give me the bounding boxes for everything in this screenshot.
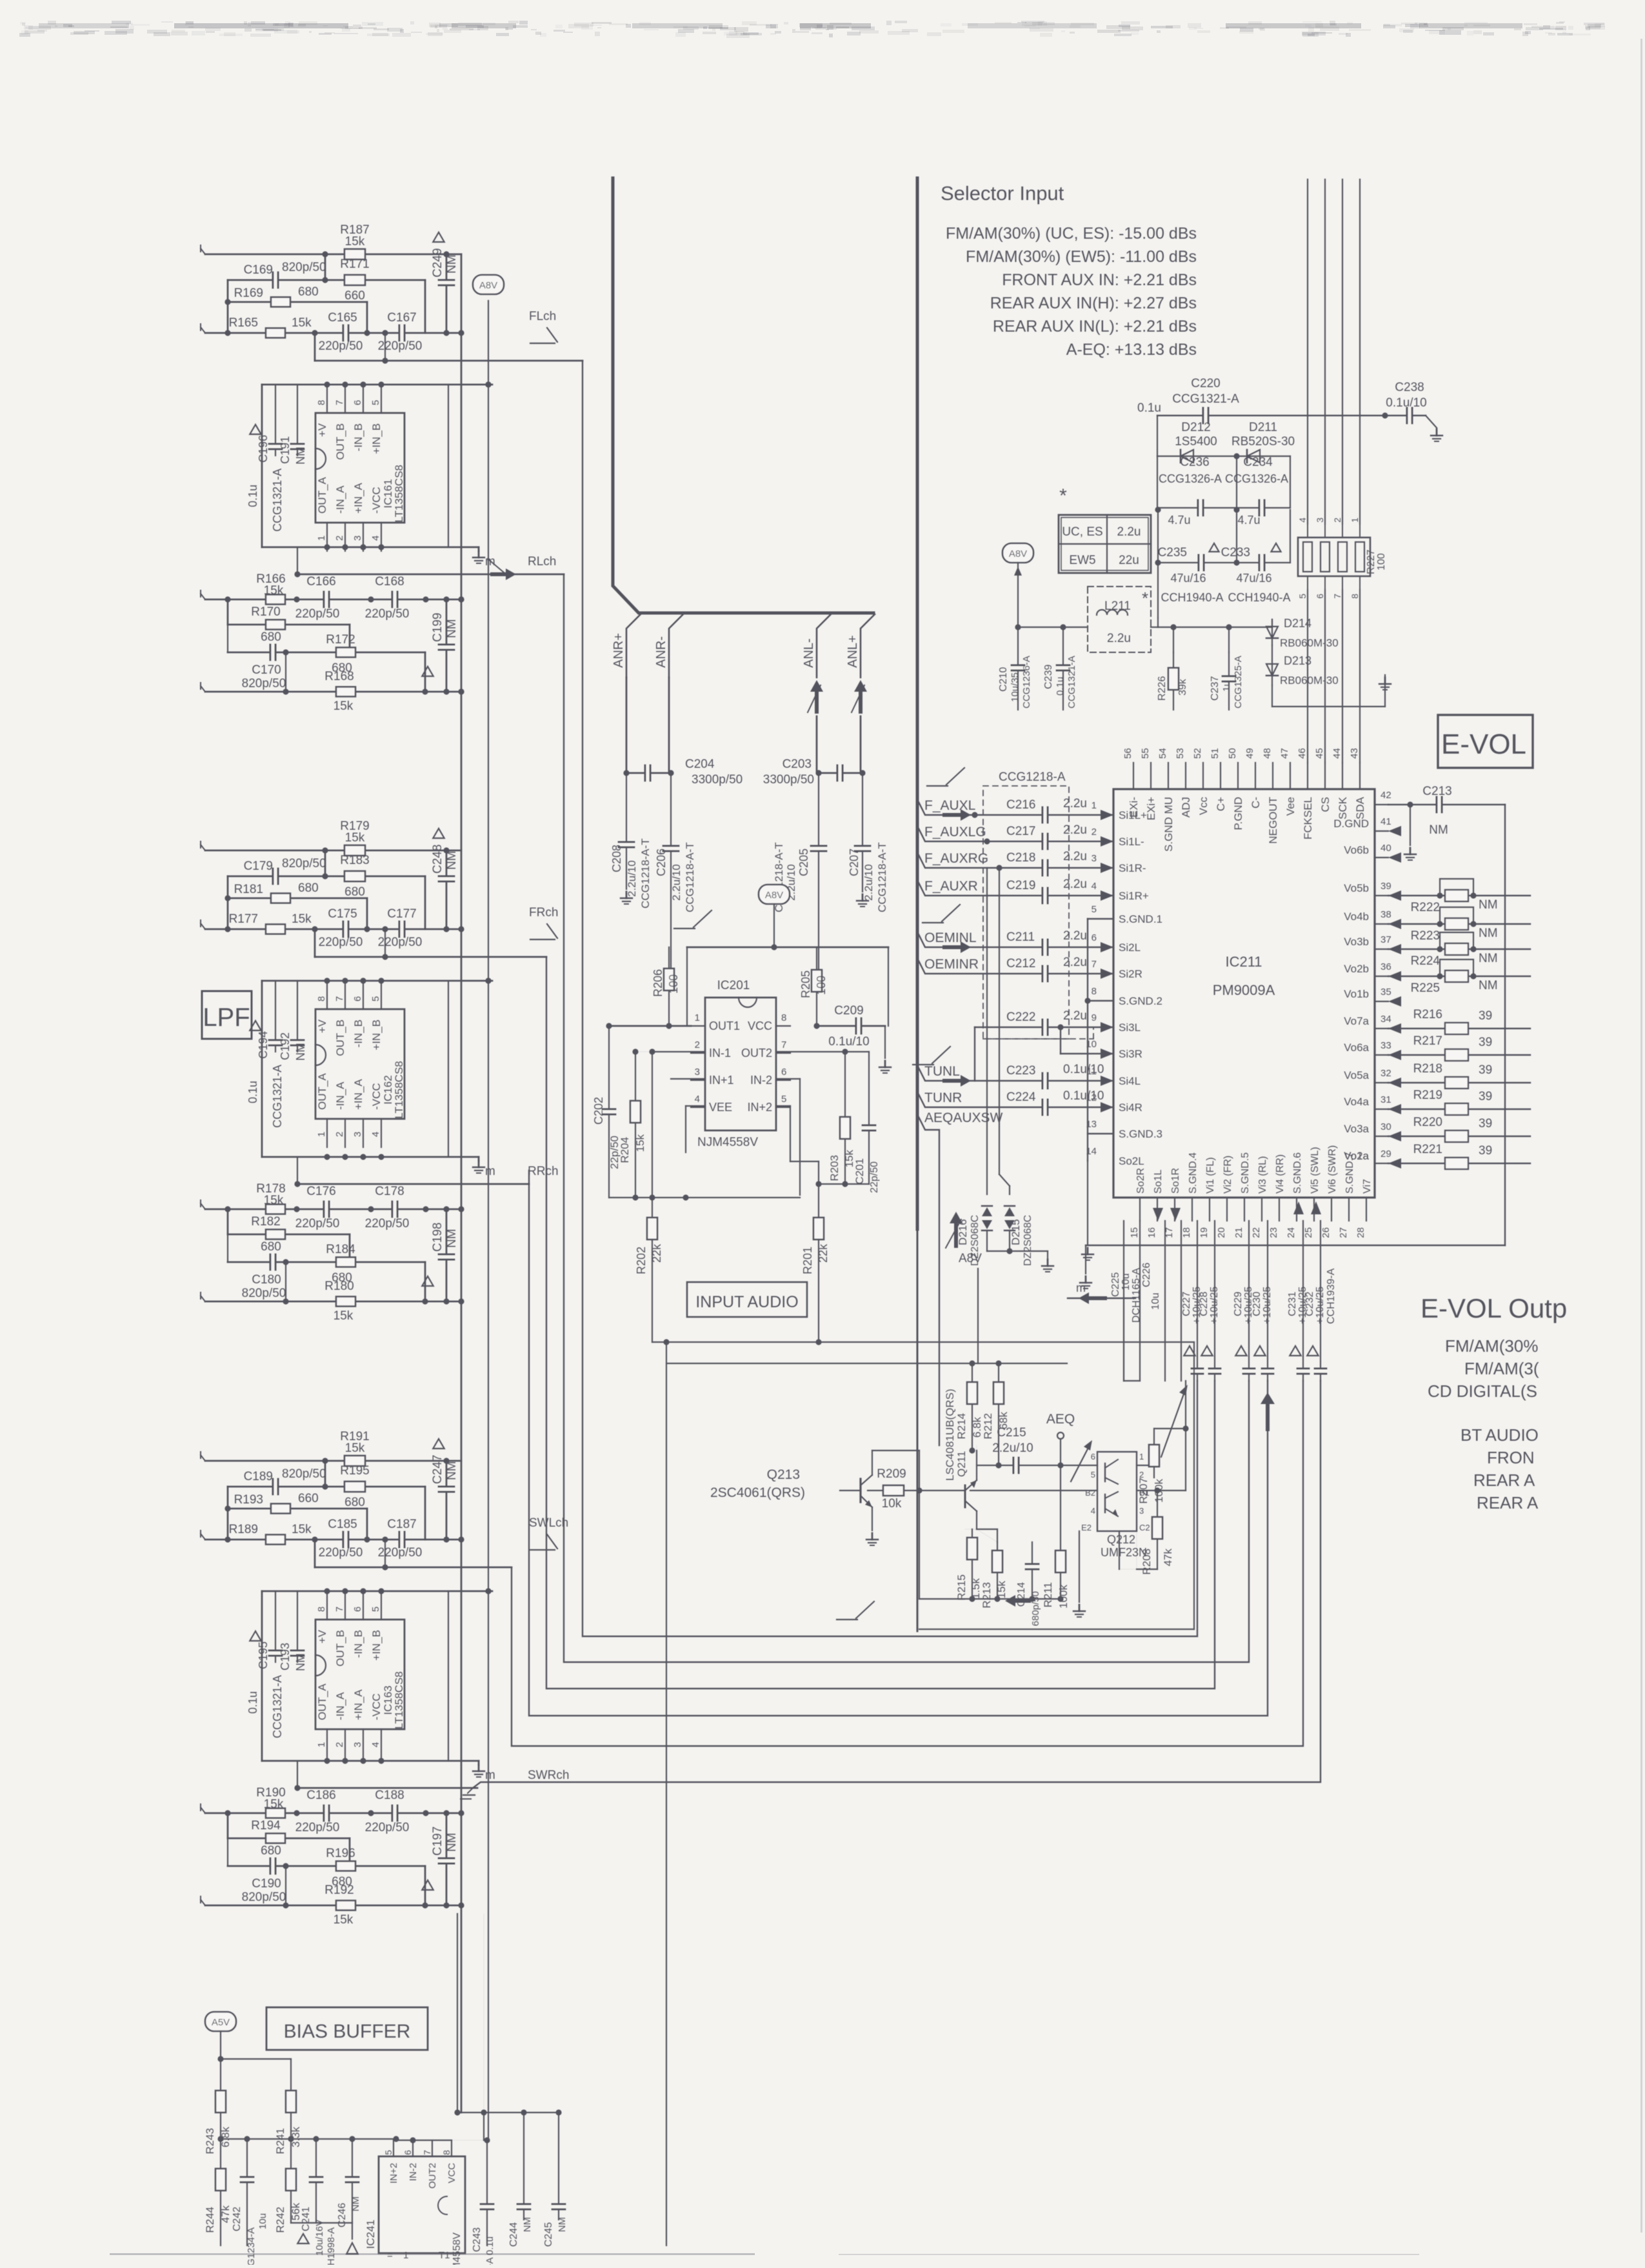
svg-text:C201: C201 [853,1158,866,1185]
svg-text:R181: R181 [234,883,263,896]
svg-text:C213: C213 [1422,785,1451,798]
svg-text:REAR A: REAR A [1473,1470,1535,1490]
wire evol caps bus [1123,1221,1124,1381]
svg-text:2.2u: 2.2u [1063,850,1087,863]
IC211 bottom pins [1139,1198,1141,1221]
svg-text:3: 3 [1092,853,1097,864]
svg-text:NM: NM [522,2217,533,2232]
arrow F_AUXL [942,809,971,821]
svg-text:R182: R182 [251,1215,280,1229]
svg-text:D213: D213 [1284,654,1311,667]
resistor R202 [652,1198,653,1342]
svg-text:+IN_A: +IN_A [352,1689,364,1720]
svg-text:8: 8 [781,1012,786,1023]
wire feedback loop [262,384,492,386]
svg-text:Vo3a: Vo3a [1344,1123,1369,1135]
transistor Q211 [964,1485,966,1507]
wire ANR- down [668,677,670,773]
capacitor C198 [446,1209,448,1301]
node ANL- [817,614,831,677]
resistor R187 [344,249,365,259]
capacitor C168 [392,590,398,608]
capacitor C247 [446,1461,448,1540]
svg-text:SWRch: SWRch [528,1769,569,1782]
node F_AUXL [917,799,1113,815]
svg-text:R213: R213 [981,1582,993,1609]
svg-text:C192: C192 [279,1032,292,1060]
wire fb bottom [609,1197,800,1198]
svg-text:D212: D212 [1181,421,1210,434]
svg-text:Si1R-: Si1R- [1119,862,1146,874]
capacitor C208 [626,773,627,889]
svg-text:0.1u: 0.1u [246,485,259,507]
resistor R211 [1060,1465,1061,1599]
svg-text:ADJ: ADJ [1180,797,1192,818]
svg-text:2.2u: 2.2u [1063,797,1087,810]
capacitor C215 [977,1465,1097,1466]
wire thick left border [613,178,873,613]
svg-text:Vi3 (RL): Vi3 (RL) [1257,1156,1268,1194]
svg-text:C220: C220 [1191,377,1220,390]
svg-text:+IN_A: +IN_A [352,1079,364,1110]
svg-text:39k: 39k [1177,678,1188,696]
capacitor C245 [558,2112,559,2220]
capacitor C202 [608,1026,610,1198]
svg-text:Si1R+: Si1R+ [1119,890,1149,902]
svg-text:CCG1218-A-T: CCG1218-A-T [876,842,888,912]
IC U211 PM9009A body [1113,789,1375,1198]
svg-text:Si1L+: Si1L+ [1119,809,1147,821]
svg-text:4: 4 [370,1742,381,1747]
svg-text:33: 33 [1381,1040,1391,1051]
svg-text:PM9009A: PM9009A [1213,982,1275,998]
node AEQ [1057,1432,1064,1439]
resistor R223 [1388,923,1530,925]
svg-text:36: 36 [1381,961,1391,972]
warning triangle [433,828,444,838]
svg-text:OEMINL: OEMINL [924,930,977,945]
svg-text:100: 100 [1376,553,1387,570]
warning triangle [250,1021,261,1030]
svg-text:FM/AM(30%: FM/AM(30% [1445,1336,1538,1356]
svg-text:Si1L-: Si1L- [1119,836,1144,848]
svg-text:2: 2 [334,1132,345,1137]
svg-text:CCG1234-A: CCG1234-A [246,2227,257,2265]
svg-text:37: 37 [1381,934,1391,945]
capacitor C209 [817,1025,885,1027]
svg-text:Vi2 (FR): Vi2 (FR) [1222,1156,1233,1194]
wire channel 0 [583,361,1197,1636]
resistor R221 [1388,1163,1530,1164]
svg-text:R222: R222 [1411,901,1440,914]
svg-text:IC201: IC201 [717,979,750,992]
capacitor C175 [343,920,349,938]
svg-text:4: 4 [1091,1506,1095,1516]
junction dots input [972,812,977,818]
wire input lower3 [205,691,461,693]
svg-text:220p/50: 220p/50 [365,1217,410,1230]
svg-text:NM: NM [557,2217,568,2232]
svg-text:C210: C210 [998,667,1009,692]
svg-text:C214: C214 [1016,1582,1027,1607]
svg-text:24: 24 [1286,1227,1297,1238]
svg-text:VEE: VEE [709,1101,732,1114]
svg-text:C216: C216 [1006,798,1035,812]
node F_AUXLG [917,826,1113,841]
svg-text:22u: 22u [1119,554,1139,567]
svg-text:NJM4558V: NJM4558V [697,1136,758,1149]
svg-text:+IN_B: +IN_B [370,423,383,454]
svg-text:820p/50: 820p/50 [242,1287,286,1300]
svg-text:12: 12 [1086,1092,1097,1103]
svg-text:41: 41 [1381,816,1391,827]
svg-text:13: 13 [1086,1119,1097,1130]
capacitor C212 [1042,965,1048,983]
svg-text:-IN_A: -IN_A [334,485,346,514]
svg-text:R189: R189 [229,1523,258,1536]
svg-text:So2L: So2L [1119,1155,1144,1167]
svg-text:42: 42 [1381,790,1391,801]
svg-text:C225: C225 [1110,1272,1121,1297]
capacitor C244 [523,2112,524,2220]
wire q212 conn [1137,1465,1154,1466]
svg-text:51: 51 [1210,748,1221,759]
svg-text:Si4L: Si4L [1119,1075,1141,1087]
svg-text:2: 2 [334,536,345,541]
capacitor C243 [486,2140,488,2245]
svg-text:C197: C197 [431,1827,444,1856]
capacitor C185 [343,1530,349,1549]
svg-text:2.2u: 2.2u [1117,525,1141,539]
svg-text:8: 8 [316,400,327,405]
resistor R180 [336,1297,355,1307]
svg-text:4: 4 [370,536,381,541]
svg-text:R192: R192 [324,1883,354,1897]
svg-text:Si3R: Si3R [1119,1048,1142,1060]
svg-text:Vo7a: Vo7a [1344,1015,1369,1027]
svg-text:R168: R168 [324,670,354,683]
wire row3 [228,1508,367,1510]
resistor R218 [1388,1082,1530,1083]
svg-text:Q213: Q213 [767,1467,800,1482]
wire channel 1 [564,574,1249,1662]
resistor R191 [344,1456,365,1466]
capacitor C192 [297,981,298,1052]
svg-text:-IN_A: -IN_A [334,1692,346,1720]
wire input lower [205,332,461,334]
svg-text:C203: C203 [783,758,812,771]
power A8V evol [1002,543,1033,563]
node AEQAUXSW [917,1114,939,1445]
svg-text:4: 4 [1092,881,1097,892]
svg-text:C228: C228 [1199,1292,1210,1316]
arrow so pins [1153,1208,1163,1221]
svg-text:RLch: RLch [528,555,556,568]
resistor R209 [868,1490,919,1491]
resistor R222 [1388,895,1530,896]
svg-text:OUT2: OUT2 [741,1047,772,1059]
svg-text:46: 46 [1297,748,1308,759]
wire q211 top [976,1445,977,1450]
svg-text:R220: R220 [1413,1116,1442,1129]
resistor R170 [266,620,285,630]
svg-text:15k: 15k [334,1913,354,1927]
svg-text:16: 16 [1146,1227,1157,1238]
svg-text:C246: C246 [337,2203,348,2227]
svg-text:C166: C166 [306,575,335,588]
svg-text:32: 32 [1381,1068,1391,1079]
svg-text:6: 6 [1315,594,1325,599]
resistor R225 [1388,976,1530,977]
svg-text:IN-1: IN-1 [709,1047,731,1059]
svg-text:34: 34 [1381,1014,1391,1025]
svg-text:1: 1 [316,1742,327,1747]
wire input audio bottom [652,1341,1194,1343]
svg-text:C+: C+ [1215,797,1227,811]
svg-text:CCG1321-A: CCG1321-A [271,1065,284,1128]
svg-text:6: 6 [781,1067,786,1078]
svg-text:Vo6a: Vo6a [1344,1041,1369,1054]
capacitor C234 [1237,507,1290,508]
capacitor C169 [272,271,279,289]
svg-text:RB060M-30: RB060M-30 [1280,674,1339,687]
wire row3 [228,301,367,303]
svg-text:1: 1 [1350,517,1360,523]
svg-text:CCG1218-A: CCG1218-A [999,770,1066,784]
capacitor C204 [626,772,671,774]
svg-text:FM/AM(30%) (UC, ES): -15.00 dB: FM/AM(30%) (UC, ES): -15.00 dBs [946,225,1197,243]
resistor R172 [336,648,355,657]
wire row2 [228,876,425,878]
svg-text:820p/50: 820p/50 [242,677,286,690]
svg-text:39: 39 [1479,1090,1492,1103]
svg-text:2.2u: 2.2u [1063,823,1087,837]
resistor R214 [972,1363,973,1450]
capacitor C187 [399,1530,405,1549]
ground q212 [1079,1531,1080,1602]
svg-text:C234: C234 [1243,456,1273,469]
svg-text:Vo4a: Vo4a [1344,1096,1369,1108]
svg-text:8: 8 [316,1607,327,1612]
svg-text:CS: CS [1319,797,1331,812]
wire ANL+ down [860,716,862,773]
svg-text:-IN_A: -IN_A [334,1081,346,1110]
resistor R168 [336,687,355,697]
svg-text:56: 56 [1122,748,1133,759]
wire transistor bottom [919,1598,1061,1600]
warning triangle [433,232,444,242]
svg-text:43: 43 [1349,748,1360,759]
wire row2 [228,1486,425,1488]
svg-text:1: 1 [316,1132,327,1137]
resistor R206 [668,947,670,1026]
svg-text:2: 2 [1332,517,1342,523]
resistor R205 [816,947,817,1026]
svg-text:R207: R207 [1137,1478,1150,1504]
svg-text:C242: C242 [232,2207,243,2231]
wire channel 3 [529,1170,1268,1716]
svg-text:F_AUXLG: F_AUXLG [924,825,986,839]
svg-text:FRch: FRch [529,906,558,919]
wire input lower3 [205,1301,461,1303]
svg-text:R193: R193 [234,1493,263,1507]
svg-text:2: 2 [334,1742,345,1747]
capacitor C206 [670,773,672,968]
svg-text:15k: 15k [264,1798,284,1811]
svg-text:5: 5 [383,2150,394,2155]
wire row3 [228,898,367,899]
svg-text:39: 39 [1479,1009,1492,1023]
svg-text:5: 5 [1091,1470,1095,1480]
node RRch [297,1157,298,1184]
capacitor C188 [392,1804,398,1822]
svg-text:C217: C217 [1006,825,1035,838]
svg-text:L211: L211 [1104,599,1131,613]
svg-text:680: 680 [261,630,281,644]
svg-text:C232: C232 [1304,1292,1315,1316]
svg-text:39: 39 [1479,1117,1492,1130]
svg-text:680: 680 [344,885,365,899]
arrow cap up [1261,1392,1275,1431]
svg-text:A5V: A5V [212,2017,230,2028]
svg-text:SCK: SCK [1337,796,1349,819]
wire row5 [227,599,229,625]
svg-text:OUT_A: OUT_A [316,1073,328,1110]
svg-text:R241: R241 [274,2128,286,2154]
node SWRch [297,1761,298,1788]
svg-text:REAR AUX IN(H): +2.27 dBs: REAR AUX IN(H): +2.27 dBs [990,294,1197,312]
svg-text:Vi5 (SWL): Vi5 (SWL) [1310,1147,1321,1194]
svg-text:NM: NM [445,254,459,274]
svg-text:0.1u/10: 0.1u/10 [1386,396,1426,410]
svg-text:C230: C230 [1251,1292,1262,1316]
diode D214 [1271,619,1273,645]
svg-text:ANL-: ANL- [802,638,816,668]
resistor R242 [286,2169,296,2191]
svg-text:4: 4 [370,1132,381,1137]
svg-text:220p/50: 220p/50 [295,1217,340,1230]
resistor R201 [813,1218,824,1239]
svg-text:15k: 15k [345,831,365,845]
svg-text:Vi1 (FL): Vi1 (FL) [1205,1157,1216,1194]
svg-text:C219: C219 [1006,879,1035,892]
svg-text:0.1u: 0.1u [1137,401,1161,415]
svg-text:S.GND.4: S.GND.4 [1188,1152,1199,1194]
wire row6 [227,1838,228,1866]
resistor R241 [286,2091,296,2112]
wire a5v split [221,2058,291,2060]
svg-text:CCG1321-A: CCG1321-A [271,468,284,532]
svg-text:m: m [1076,1281,1086,1294]
arrow OEMINL [942,941,971,953]
capacitor C236 [1157,456,1158,508]
svg-text:NM: NM [294,447,307,465]
capacitor C238 [1385,415,1426,416]
IC211 right pins [1375,804,1388,805]
wire long vertical [666,1342,667,2245]
svg-text:LT1358CS8: LT1358CS8 [393,1061,405,1118]
svg-text:2.2u: 2.2u [1063,956,1087,969]
resistor R219 [1388,1109,1530,1110]
svg-text:BT AUDIO: BT AUDIO [1461,1425,1539,1445]
capacitor C216 [1042,806,1048,824]
wire q212 enclosure [1185,1381,1186,1429]
svg-text:C178: C178 [375,1185,404,1198]
svg-text:C177: C177 [387,907,416,921]
capacitor C207 [862,773,863,892]
transistor Q213 [872,1450,919,1451]
svg-text:NM: NM [350,2196,361,2211]
diode D213 [1271,645,1273,685]
wire L211 [1018,627,1088,628]
ground SWRch [463,1794,475,1796]
wire right border lower [917,1228,919,1631]
power A5V [205,2012,236,2031]
svg-text:220p/50: 220p/50 [319,1546,363,1560]
svg-text:25: 25 [1303,1227,1314,1238]
svg-text:R215: R215 [955,1574,968,1601]
svg-text:FLch: FLch [529,310,556,323]
svg-text:2SC4061(QRS): 2SC4061(QRS) [710,1485,805,1500]
wire row2 [228,279,425,281]
wire si3 [975,1027,1113,1028]
arrow evol left [1068,1298,1135,1299]
diode D215 [1004,1207,1015,1216]
svg-text:+IN_B: +IN_B [370,1019,383,1050]
svg-text:AEQAUXSW: AEQAUXSW [924,1110,1003,1125]
arrow diag r207 [1161,1389,1186,1457]
arrow diag aeq [1071,1444,1090,1481]
svg-text:Si2R: Si2R [1119,968,1142,980]
svg-text:DCH1165-A: DCH1165-A [1131,1268,1142,1323]
wire aeq mid [666,1363,1067,1364]
svg-text:So1L: So1L [1153,1170,1164,1194]
wire row6 [227,1234,228,1262]
wire control bus [1307,179,1308,524]
wire input lower2 [205,599,461,601]
svg-text:680: 680 [344,1496,365,1509]
svg-text:CCG1321-A: CCG1321-A [271,1675,284,1738]
capacitor C166 [323,590,330,608]
svg-text:+V: +V [316,1019,328,1033]
svg-text:C241: C241 [301,2207,312,2231]
svg-text:C208: C208 [610,845,623,872]
svg-text:So1R: So1R [1170,1168,1181,1194]
svg-text:1: 1 [1139,1452,1144,1461]
svg-text:UC, ES: UC, ES [1062,525,1102,539]
svg-text:19: 19 [1199,1227,1210,1238]
svg-text:C231: C231 [1287,1292,1298,1316]
svg-text:A8V: A8V [765,890,783,901]
svg-text:52: 52 [1192,748,1203,759]
svg-text:5: 5 [370,400,381,405]
resistor R203 [844,1052,846,1184]
svg-text:C179: C179 [244,859,273,873]
svg-text:NM: NM [445,619,459,638]
arrow aeq up [950,1212,962,1248]
svg-text:C196: C196 [257,435,270,463]
diode D216 [986,868,988,1194]
svg-text:E-VOL Outp: E-VOL Outp [1421,1293,1567,1323]
resistor R177 [266,925,285,934]
slash marks2 [946,768,964,785]
wire sgnd bus [1087,919,1088,1161]
node TUNL [917,1065,1113,1081]
svg-text:ANR+: ANR+ [612,633,626,668]
svg-text:6: 6 [352,1607,363,1612]
resistor R181 [271,894,290,903]
svg-text:OUT_B: OUT_B [334,1019,346,1056]
